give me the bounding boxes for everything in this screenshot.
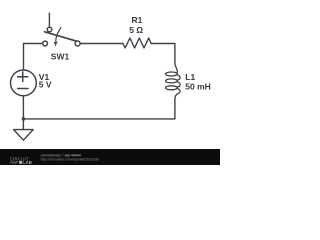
wire V1 bottom to ground [22,96,24,130]
inductor L1 [166,64,181,99]
svg-text:http://circuitlab.com/c/pea8d2: http://circuitlab.com/c/pea8d2b62e5b [41,158,100,162]
labels [39,15,211,92]
voltage source V1 [11,70,37,96]
SW1 right common terminal [75,41,80,46]
wire R1 to top-right corner down to inductor [151,44,175,65]
svg-text:50 mH: 50 mH [185,82,211,92]
CircuitLab logo [10,156,33,164]
wire V1 top to switch left terminal [24,44,43,71]
wire switch right terminal to resistor R1 [80,43,123,45]
SW1 left terminal [43,41,48,46]
junction node at V1 / ground / bottom wire [22,117,26,121]
svg-text:R1: R1 [132,15,143,25]
resistor R1 [123,38,151,48]
wire switch top stub [48,13,50,27]
switch SW1 [43,27,80,46]
SW1 lever arm [45,32,78,42]
svg-text:LAB: LAB [23,160,33,165]
svg-text:5 V: 5 V [39,80,52,90]
ground [14,130,34,141]
SW1 arrow head [54,41,58,46]
SW1 actuation arrow [56,28,61,41]
svg-text:5 Ω: 5 Ω [129,25,143,35]
wire inductor bottom to bottom-right corner and along bottom [23,99,175,119]
watermark bar [0,149,220,165]
svg-text:L1: L1 [185,72,195,82]
SW1 top throw terminal [47,27,52,32]
svg-text:SW1: SW1 [51,52,70,62]
